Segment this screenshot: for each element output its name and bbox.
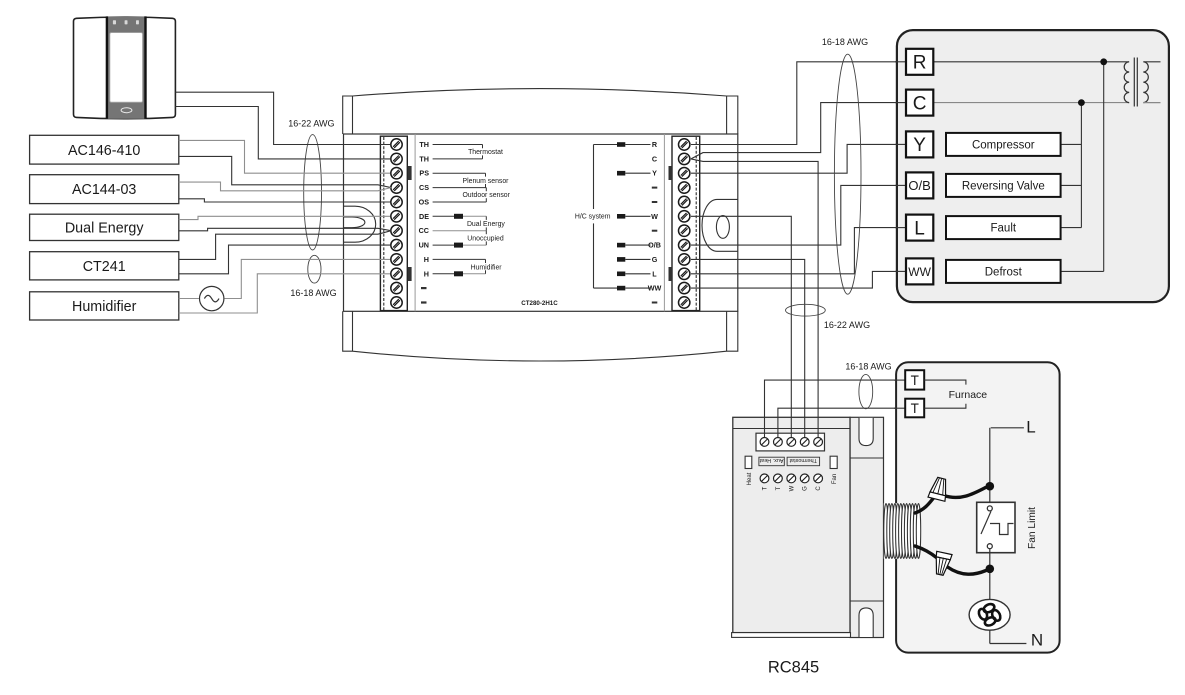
svg-text:G: G <box>652 255 658 264</box>
svg-text:C: C <box>652 154 657 163</box>
svg-text:O/B: O/B <box>908 178 930 193</box>
svg-text:Furnace: Furnace <box>949 389 988 401</box>
svg-text:N: N <box>1031 631 1043 650</box>
svg-text:R: R <box>913 53 927 74</box>
svg-text:C: C <box>913 93 927 114</box>
svg-text:W: W <box>789 485 795 491</box>
svg-text:Fan: Fan <box>832 474 838 484</box>
svg-text:Unoccupied: Unoccupied <box>467 235 504 242</box>
svg-text:Reversing Valve: Reversing Valve <box>962 180 1045 192</box>
svg-text:PS: PS <box>419 169 429 178</box>
svg-text:L: L <box>914 218 925 239</box>
svg-text:Dual Energy: Dual Energy <box>65 220 145 236</box>
svg-text:Aux. Heat: Aux. Heat <box>759 457 783 463</box>
svg-text:T: T <box>763 486 769 490</box>
svg-text:16-22 AWG: 16-22 AWG <box>288 119 334 129</box>
svg-text:TH: TH <box>419 140 429 149</box>
svg-text:TH: TH <box>419 154 429 163</box>
svg-text:16-22 AWG: 16-22 AWG <box>824 320 870 330</box>
svg-text:Heat: Heat <box>747 472 753 485</box>
svg-text:Fault: Fault <box>991 223 1017 235</box>
svg-text:Outdoor sensor: Outdoor sensor <box>462 192 510 199</box>
svg-text:H/C system: H/C system <box>575 214 611 221</box>
svg-text:Humidifier: Humidifier <box>471 265 503 272</box>
svg-text:16-18 AWG: 16-18 AWG <box>822 37 868 47</box>
svg-text:R: R <box>652 140 658 149</box>
svg-text:H: H <box>424 255 429 264</box>
svg-text:AC144-03: AC144-03 <box>72 182 136 198</box>
svg-text:O/B: O/B <box>648 241 661 250</box>
svg-text:C: C <box>816 486 822 491</box>
svg-text:Dual Energy: Dual Energy <box>467 221 505 228</box>
svg-text:T: T <box>911 401 919 416</box>
svg-text:CC: CC <box>419 226 429 235</box>
svg-text:L: L <box>652 269 657 278</box>
svg-text:OS: OS <box>419 198 430 207</box>
svg-text:Thermostat: Thermostat <box>468 149 503 156</box>
svg-text:RC845: RC845 <box>768 659 819 677</box>
svg-text:DE: DE <box>419 212 429 221</box>
svg-text:CT241: CT241 <box>83 259 126 275</box>
svg-text:W: W <box>651 212 658 221</box>
svg-text:WW: WW <box>648 284 662 293</box>
svg-text:L: L <box>1026 417 1035 436</box>
svg-text:16-18 AWG: 16-18 AWG <box>290 288 336 298</box>
svg-text:Compressor: Compressor <box>972 139 1035 151</box>
svg-text:Y: Y <box>913 135 926 156</box>
svg-text:WW: WW <box>908 265 931 279</box>
svg-text:CT280-2H1C: CT280-2H1C <box>521 300 558 307</box>
svg-text:Y: Y <box>652 169 657 178</box>
svg-text:G: G <box>803 486 809 491</box>
svg-text:Humidifier: Humidifier <box>72 299 137 315</box>
svg-text:T: T <box>776 486 782 490</box>
svg-text:CS: CS <box>419 183 429 192</box>
svg-text:16-18 AWG: 16-18 AWG <box>845 361 891 371</box>
svg-text:T: T <box>911 373 919 388</box>
svg-text:Fan Limit: Fan Limit <box>1027 507 1038 549</box>
svg-text:Defrost: Defrost <box>985 266 1023 278</box>
svg-text:Thermostat: Thermostat <box>789 457 817 463</box>
svg-text:AC146-410: AC146-410 <box>68 143 140 159</box>
svg-text:Plenum sensor: Plenum sensor <box>463 178 510 185</box>
svg-text:H: H <box>424 269 429 278</box>
svg-text:UN: UN <box>419 241 429 250</box>
